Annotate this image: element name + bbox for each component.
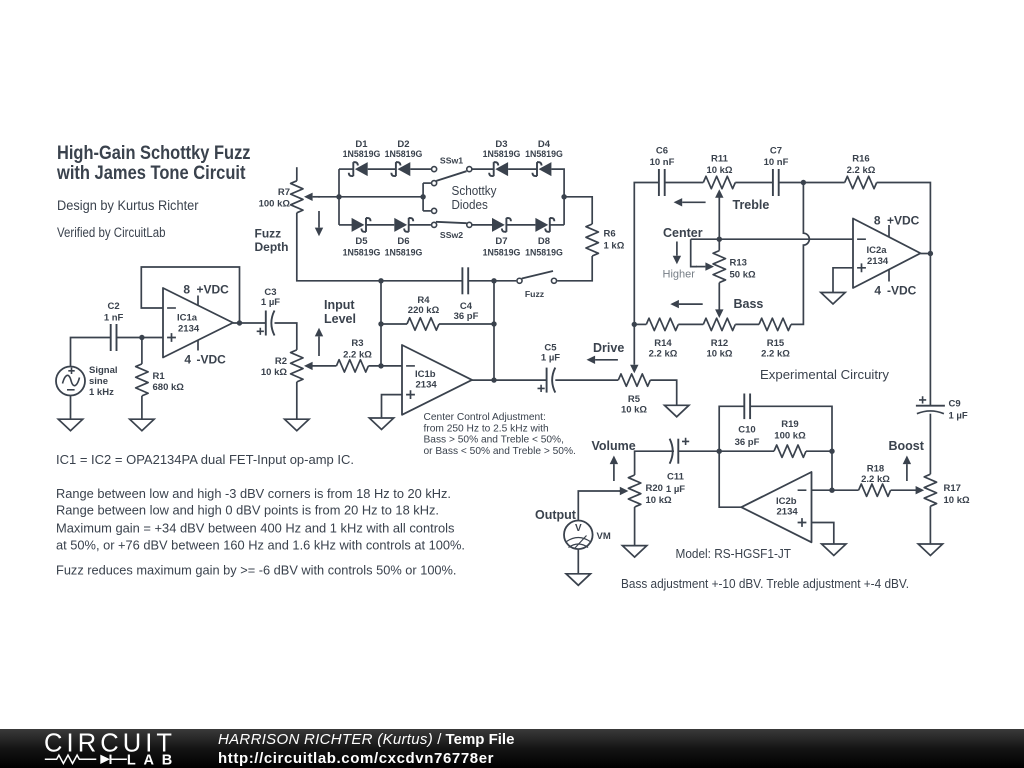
- potentiometer R20 10 k&#937;: [628, 475, 640, 507]
- op-amp IC2b inverting input marker: [798, 489, 807, 491]
- wire junction to R1: [141, 338, 143, 364]
- op-amp IC1b inverting input marker: [406, 365, 415, 367]
- node IC1b output junction: [491, 377, 496, 382]
- ground under IC2b input: [822, 544, 846, 556]
- wire R7 bottom to feedback node: [297, 213, 381, 281]
- diode D5 1N5819G: [362, 218, 371, 232]
- capacitor C6 10 nF: [658, 169, 660, 196]
- wire R11 to C7: [735, 182, 773, 184]
- op-amp IC2a inverting input marker: [857, 238, 866, 240]
- wire R12 to R15: [735, 323, 759, 325]
- svg-text:Experimental Circuitry: Experimental Circuitry: [760, 368, 890, 382]
- svg-text:1 kΩ: 1 kΩ: [604, 241, 625, 252]
- svg-text:100 kΩ: 100 kΩ: [259, 199, 291, 210]
- svg-text:50 kΩ: 50 kΩ: [730, 270, 756, 281]
- potentiometer R13 50 k&#937;: [713, 251, 725, 283]
- svg-text:Center: Center: [663, 226, 703, 240]
- svg-text:Maximum gain = +34 dBV between: Maximum gain = +34 dBV between 400 Hz an…: [56, 521, 454, 536]
- wire V1 to ground: [70, 396, 72, 420]
- op-amp IC2b: [741, 472, 811, 542]
- wiper arrow R2: [311, 365, 314, 367]
- wire R19 to right vertical: [806, 450, 832, 452]
- node Drive/Bass junction: [632, 322, 637, 327]
- wiper arrow R11 up: [718, 197, 720, 199]
- node R4 left: [378, 321, 383, 326]
- svg-text:V: V: [575, 523, 582, 534]
- ground under V1: [58, 419, 82, 431]
- node IC2a output junction: [928, 251, 933, 256]
- wire R7 top stub: [296, 167, 298, 181]
- wiper arrow R12 down: [718, 308, 720, 310]
- svg-text:Design by Kurtus Richter: Design by Kurtus Richter: [57, 198, 199, 213]
- svg-text:Fuzz: Fuzz: [525, 289, 545, 299]
- node R19 right junction: [829, 449, 834, 454]
- wire to R19: [719, 450, 774, 452]
- wire D4 to right vertical: [551, 169, 564, 225]
- node diode block left junction: [336, 194, 341, 199]
- node junction C2/R1/IC1a+: [139, 335, 144, 340]
- svg-text:Diodes: Diodes: [452, 198, 488, 212]
- ground under R2: [285, 419, 309, 431]
- svg-text:1 µF: 1 µF: [261, 297, 280, 308]
- node feedback top-left: [378, 278, 383, 283]
- diode D8 1N5819G: [545, 218, 554, 232]
- wire SSw2 to D7: [473, 224, 493, 226]
- wire R4 to right feedback node: [439, 323, 494, 325]
- wire D5 to D6: [366, 224, 394, 226]
- node middle rail junction: [420, 194, 425, 199]
- svg-text:680 kΩ: 680 kΩ: [153, 382, 185, 393]
- ground under VM: [566, 574, 590, 586]
- wire D8 to right vertical: [550, 224, 564, 226]
- capacitor C7 10 nF: [772, 169, 774, 196]
- resistor R1 680 k&#937;: [136, 364, 148, 396]
- resistor R15 2.2 k&#937;: [759, 318, 791, 330]
- svg-text:Volume: Volume: [592, 439, 636, 453]
- svg-text:C2: C2: [108, 301, 120, 312]
- arrow Boost up: [906, 464, 908, 481]
- wire D6 to SSw2: [409, 224, 431, 226]
- svg-text:2134: 2134: [416, 380, 438, 391]
- svg-text:Bass: Bass: [734, 297, 764, 311]
- diode D2 1N5819G: [391, 162, 400, 176]
- svg-text:R19: R19: [781, 419, 798, 430]
- node Center/R13 junction: [717, 237, 722, 242]
- wire C11 to IC2b feedback node: [678, 450, 719, 452]
- svg-text:Output: Output: [535, 508, 577, 522]
- potentiometer R7 100 k&#937;: [291, 181, 303, 213]
- svg-text:+VDC: +VDC: [197, 283, 230, 297]
- svg-text:R14: R14: [654, 338, 672, 349]
- svg-text:1N5819G: 1N5819G: [525, 149, 563, 159]
- svg-text:at 50%, or +76 dBV between 160: at 50%, or +76 dBV between 160 Hz and 1.…: [56, 538, 465, 553]
- svg-text:C6: C6: [656, 146, 668, 157]
- wire C3 to R2: [275, 323, 297, 350]
- diode D6 1N5819G: [404, 218, 413, 232]
- svg-text:LAB: LAB: [127, 753, 172, 768]
- arrow Fuzz Depth down: [318, 211, 320, 228]
- wire feedback right vertical: [493, 281, 495, 380]
- op-amp IC1a: [163, 288, 233, 358]
- wire R5 to ground: [650, 380, 676, 405]
- svg-text:from 250 Hz to 2.5 kHz with: from 250 Hz to 2.5 kHz with: [424, 423, 549, 434]
- svg-text:2.2 kΩ: 2.2 kΩ: [343, 349, 372, 360]
- wire R16 to IC2a output rail: [877, 183, 931, 254]
- svg-text:D8: D8: [538, 236, 550, 247]
- svg-text:High-Gain Schottky Fuzz: High-Gain Schottky Fuzz: [57, 142, 251, 164]
- node diode block right junction: [561, 194, 566, 199]
- svg-text:2134: 2134: [178, 324, 200, 335]
- svg-text:2.2 kΩ: 2.2 kΩ: [861, 474, 890, 485]
- potentiometer R2 10 k&#937;: [291, 350, 303, 382]
- svg-text:1N5819G: 1N5819G: [343, 149, 381, 159]
- wire C9 to R17: [929, 414, 931, 475]
- svg-text:-VDC: -VDC: [887, 284, 917, 298]
- svg-text:IC2b: IC2b: [776, 496, 797, 507]
- wire D1 to D2: [368, 168, 396, 170]
- wire C4 to left feedback node: [381, 280, 462, 282]
- svg-text:Signal: Signal: [89, 365, 118, 376]
- op-amp IC1a inverting input marker: [167, 307, 176, 309]
- footer title text: [218, 731, 514, 768]
- resistor R14 2.2 k&#937;: [646, 318, 678, 330]
- svg-text:Depth: Depth: [255, 240, 289, 254]
- arrow Bass left: [679, 303, 703, 305]
- wire diode block to R6: [564, 197, 592, 224]
- node top row junction: [801, 180, 806, 185]
- wire diode block left vertical: [338, 169, 340, 225]
- wire C2 to IC1a noninverting input: [117, 337, 164, 339]
- svg-text:8: 8: [183, 283, 190, 297]
- wire Center net: [691, 238, 853, 240]
- wire R18 to R17 wiper: [891, 489, 917, 491]
- switch SSw1: [432, 167, 437, 172]
- svg-text:SSw1: SSw1: [440, 156, 463, 166]
- svg-text:4: 4: [874, 284, 881, 298]
- svg-text:R15: R15: [767, 338, 785, 349]
- wire R20 to ground: [634, 507, 636, 546]
- svg-text:R6: R6: [604, 229, 616, 240]
- wire C5 to R5: [555, 379, 618, 381]
- svg-text:1N5819G: 1N5819G: [483, 247, 521, 257]
- svg-text:Range between low and high -3: Range between low and high -3 dBV corner…: [56, 486, 451, 501]
- svg-text:R5: R5: [628, 394, 641, 405]
- wire riser to SSw2 throw: [423, 210, 431, 212]
- svg-text:1N5819G: 1N5819G: [385, 247, 423, 257]
- svg-text:C11: C11: [667, 472, 685, 483]
- capacitor C10 36 pF: [743, 394, 745, 420]
- svg-text:8: 8: [874, 214, 881, 228]
- wire C7 to R16: [779, 182, 845, 184]
- capacitor C4 36 pF: [461, 267, 463, 294]
- svg-text:R20: R20: [646, 483, 663, 494]
- wire R14 to R12: [678, 323, 703, 325]
- ground under R5: [665, 405, 689, 417]
- wire to D5: [339, 224, 353, 226]
- ground under R20: [622, 546, 646, 558]
- wire IC2a noninverting to ground: [833, 268, 853, 293]
- svg-text:R17: R17: [944, 483, 961, 494]
- svg-text:R13: R13: [730, 258, 747, 269]
- arrow Treble left: [682, 201, 705, 203]
- svg-text:10 kΩ: 10 kΩ: [621, 405, 647, 416]
- svg-text:2134: 2134: [867, 256, 889, 267]
- wire R15 to top row riser with hop over Center net: [791, 183, 809, 325]
- wire D2 to SSw1: [410, 168, 431, 170]
- arrow Drive left: [595, 359, 618, 361]
- CircuitLab logo: [0, 729, 190, 768]
- wire D7 to D8: [506, 224, 535, 226]
- wire R20 top to C11: [635, 451, 674, 475]
- node IC1a output junction: [237, 320, 242, 325]
- ground under R1: [130, 419, 154, 431]
- op-amp IC1a noninverting input marker: [167, 333, 176, 342]
- svg-text:1N5819G: 1N5819G: [483, 149, 521, 159]
- pin 4 -VDC of IC2a: [888, 270, 890, 282]
- svg-text:C7: C7: [770, 146, 782, 157]
- svg-text:36 pF: 36 pF: [454, 311, 479, 322]
- wiper arrow R13 right: [696, 266, 705, 268]
- svg-text:R12: R12: [711, 338, 728, 349]
- wire feedback left vertical: [380, 281, 382, 366]
- switch Fuzz: [551, 278, 556, 283]
- svg-text:2.2 kΩ: 2.2 kΩ: [847, 165, 876, 176]
- svg-text:Schottky: Schottky: [452, 184, 498, 198]
- wire switch riser vertical: [422, 183, 424, 211]
- wire IC2b noninverting to ground: [812, 523, 834, 545]
- wire Center node to R13: [718, 239, 720, 250]
- svg-text:Level: Level: [324, 312, 356, 326]
- wire to R4: [381, 323, 407, 325]
- voltage source V1 signal sine: [56, 367, 85, 396]
- wire R2 wiper to R3: [311, 365, 336, 367]
- svg-text:R1: R1: [153, 371, 166, 382]
- wire VM to ground: [577, 549, 579, 574]
- wire Bass row to C6 top branch: [634, 183, 659, 325]
- wire IC2b inverting input to R18: [812, 489, 859, 491]
- svg-text:SSw2: SSw2: [440, 230, 463, 240]
- wire Fuzz switch to C4: [468, 280, 516, 282]
- svg-text:Treble: Treble: [733, 198, 770, 212]
- svg-text:100 kΩ: 100 kΩ: [774, 431, 806, 442]
- svg-text:1N5819G: 1N5819G: [385, 149, 423, 159]
- op-amp IC1b: [402, 345, 472, 415]
- wire IC2a output: [921, 253, 931, 255]
- svg-text:R3: R3: [351, 338, 363, 349]
- svg-text:D6: D6: [397, 236, 409, 247]
- switch SSw2: [432, 208, 437, 213]
- resistor R3 2.2 k&#937;: [336, 360, 368, 372]
- diode D3 1N5819G: [489, 162, 498, 176]
- wire R6 to Fuzz switch: [557, 256, 592, 281]
- op-amp IC1b noninverting input marker: [406, 390, 415, 399]
- node IC2b output junction: [717, 449, 722, 454]
- wire R3 to IC1b inverting input: [368, 365, 402, 367]
- svg-text:R18: R18: [867, 464, 884, 475]
- svg-text:+VDC: +VDC: [887, 214, 920, 228]
- node feedback top-right: [491, 278, 496, 283]
- svg-text:C9: C9: [949, 399, 961, 410]
- svg-text:IC1 = IC2 = OPA2134PA dual FET: IC1 = IC2 = OPA2134PA dual FET-Input op-…: [56, 452, 354, 467]
- resistor R4 220 k&#937;: [407, 318, 439, 330]
- wire R11 wiper to Center node: [718, 197, 720, 239]
- pin 8 +VDC of IC2a: [888, 225, 890, 237]
- resistor R16 2.2 k&#937;: [845, 176, 877, 188]
- svg-text:Higher: Higher: [663, 269, 696, 281]
- capacitor C3 1 uF polarized: [265, 311, 267, 336]
- wire R13 to R12 wiper: [718, 283, 720, 311]
- svg-text:VM: VM: [597, 531, 611, 542]
- svg-text:10 kΩ: 10 kΩ: [706, 165, 732, 176]
- wire IC1b output to C5: [472, 379, 547, 381]
- svg-text:36 pF: 36 pF: [735, 437, 760, 448]
- pin 4 -VDC of IC1a: [197, 340, 199, 351]
- svg-text:IC1a: IC1a: [177, 313, 198, 324]
- capacitor C11 1 uF polarized: [677, 439, 679, 464]
- svg-text:Boost: Boost: [889, 439, 925, 453]
- diode D1 1N5819G: [349, 162, 358, 176]
- wire R1 to ground: [141, 396, 143, 419]
- wiper arrow R17 right: [915, 489, 917, 491]
- wire IC1a feedback loop: [141, 267, 239, 323]
- svg-text:C10: C10: [738, 425, 755, 436]
- svg-text:R7: R7: [278, 187, 290, 198]
- ground under IC1b input: [369, 418, 393, 430]
- resistor R6 1 k&#937;: [586, 224, 598, 256]
- svg-text:or Bass < 50% and Treble > 50%: or Bass < 50% and Treble > 50%.: [424, 446, 576, 457]
- wire SSw1 to D3: [473, 168, 494, 170]
- node junction R3/feedback/IC1b-: [378, 363, 383, 368]
- svg-text:Center Control Adjustment:: Center Control Adjustment:: [424, 412, 546, 423]
- wire IC1a output to C3: [233, 322, 266, 324]
- resistor R18 2.2 k&#937;: [859, 484, 891, 496]
- footer bar: [0, 729, 1024, 768]
- op-amp IC2a noninverting input marker: [857, 263, 866, 272]
- svg-text:2134: 2134: [777, 507, 799, 518]
- op-amp IC2a: [853, 219, 921, 289]
- svg-text:220 kΩ: 220 kΩ: [408, 305, 440, 316]
- svg-text:2.2 kΩ: 2.2 kΩ: [649, 349, 678, 360]
- diode D7 1N5819G: [502, 218, 511, 232]
- wire to R14: [634, 323, 646, 325]
- wire up to C10 branch: [719, 406, 744, 451]
- svg-text:sine: sine: [89, 376, 108, 387]
- wiper arrow R7: [313, 196, 320, 198]
- wire IC1b noninverting to ground: [382, 395, 403, 418]
- svg-text:Bass adjustment +-10 dBV. Treb: Bass adjustment +-10 dBV. Treble adjustm…: [621, 577, 909, 591]
- wire D3 to D4: [508, 168, 537, 170]
- svg-text:Range between low and high 0 d: Range between low and high 0 dBV points …: [56, 503, 439, 518]
- resistor R19 100 k&#937;: [774, 445, 806, 457]
- svg-text:R2: R2: [275, 356, 287, 367]
- diode D4 1N5819G: [533, 162, 542, 176]
- arrow Volume up: [613, 464, 615, 481]
- svg-text:1 µF: 1 µF: [666, 484, 685, 495]
- wire C10 to right vertical: [750, 406, 832, 490]
- potentiometer R17 10 k&#937;: [924, 474, 936, 506]
- capacitor C9 1 uF polarized: [916, 405, 945, 407]
- wire to D1: [339, 168, 353, 170]
- node R18/feedback junction: [829, 488, 834, 493]
- wire IC2b output to feedback: [719, 451, 741, 507]
- wiper arrow R5 from Drive node: [633, 324, 635, 364]
- svg-text:Model: RS-HGSF1-JT: Model: RS-HGSF1-JT: [676, 547, 792, 561]
- svg-text:1 µF: 1 µF: [949, 411, 968, 422]
- capacitor C5 1 uF polarized: [546, 368, 548, 393]
- svg-text:10 nF: 10 nF: [764, 157, 789, 168]
- wire R20 wiper to voltmeter: [578, 491, 620, 520]
- wire R2 to ground: [296, 382, 298, 419]
- svg-text:IC1b: IC1b: [415, 369, 436, 380]
- wire C6 to R11: [665, 182, 704, 184]
- svg-text:4: 4: [184, 353, 191, 367]
- wire R17 to ground: [929, 506, 931, 544]
- ground under R17: [918, 544, 942, 556]
- potentiometer R12 10 k&#937;: [703, 318, 735, 330]
- svg-text:D7: D7: [495, 236, 507, 247]
- svg-text:10 nF: 10 nF: [650, 157, 675, 168]
- capacitor C2 1 nF: [110, 324, 112, 351]
- wire IC2a output down to C9: [929, 254, 931, 406]
- svg-text:1 kHz: 1 kHz: [89, 387, 114, 398]
- voltmeter VM: [564, 521, 593, 550]
- svg-text:Drive: Drive: [593, 341, 624, 355]
- node R4 right: [491, 321, 496, 326]
- svg-text:-VDC: -VDC: [197, 353, 227, 367]
- wiper arrow R20 right: [618, 490, 621, 492]
- wire Center to R13 wiper: [691, 239, 697, 266]
- svg-text:10 kΩ: 10 kΩ: [706, 349, 732, 360]
- wire V1 to C2: [71, 338, 111, 367]
- pin 8 +VDC of IC1a: [197, 296, 199, 306]
- svg-text:10 kΩ: 10 kΩ: [261, 367, 287, 378]
- svg-text:Verified by CircuitLab: Verified by CircuitLab: [57, 225, 166, 240]
- svg-text:IC2a: IC2a: [867, 245, 888, 256]
- svg-text:Input: Input: [324, 298, 355, 312]
- svg-text:1N5819G: 1N5819G: [525, 247, 563, 257]
- svg-text:1 µF: 1 µF: [541, 353, 560, 364]
- op-amp IC2b noninverting input marker: [798, 518, 807, 527]
- svg-text:D5: D5: [355, 236, 368, 247]
- svg-text:Fuzz reduces maximum gain by >: Fuzz reduces maximum gain by >= -6 dBV w…: [56, 563, 457, 578]
- svg-text:1N5819G: 1N5819G: [343, 247, 381, 257]
- potentiometer R5 10 k&#937;: [618, 374, 650, 386]
- svg-text:1 nF: 1 nF: [104, 312, 124, 323]
- arrow Input Level up: [318, 336, 320, 356]
- wire riser to SSw1 throw: [423, 182, 431, 184]
- wire R7 wiper to diode node: [318, 196, 339, 198]
- svg-text:Fuzz: Fuzz: [255, 227, 282, 241]
- wire diode block middle rail: [339, 196, 423, 198]
- arrow Center down: [676, 242, 678, 256]
- svg-text:2.2 kΩ: 2.2 kΩ: [761, 349, 790, 360]
- svg-text:with James Tone Circuit: with James Tone Circuit: [56, 162, 246, 184]
- ground under IC2a input: [821, 293, 845, 305]
- svg-text:10 kΩ: 10 kΩ: [944, 495, 970, 506]
- svg-text:Bass > 50% and Treble < 50%,: Bass > 50% and Treble < 50%,: [424, 435, 564, 446]
- potentiometer R11 10 k&#937;: [703, 176, 735, 188]
- svg-text:R16: R16: [852, 154, 869, 165]
- svg-text:10 kΩ: 10 kΩ: [646, 495, 672, 506]
- svg-text:R11: R11: [711, 154, 729, 165]
